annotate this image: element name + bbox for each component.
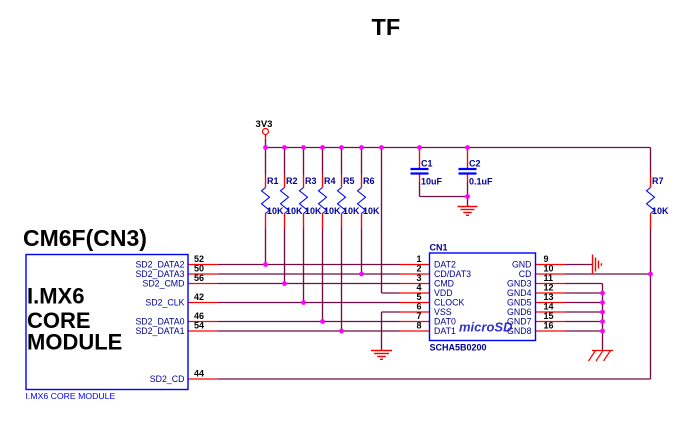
svg-text:1: 1 <box>416 254 421 264</box>
svg-text:15: 15 <box>544 311 554 321</box>
svg-text:2: 2 <box>416 264 421 274</box>
svg-text:10K: 10K <box>267 206 284 216</box>
svg-text:CMD: CMD <box>434 279 454 289</box>
ground under VSS <box>371 351 392 360</box>
svg-text:8: 8 <box>416 321 421 331</box>
svg-text:0.1uF: 0.1uF <box>469 177 493 187</box>
wire net SD2_CLK/CLOCK <box>218 302 400 304</box>
CN1 right pin numbers 9-16 <box>544 254 554 331</box>
wire ground column vertical <box>602 284 604 351</box>
svg-text:DAT2: DAT2 <box>434 260 456 270</box>
svg-text:10K: 10K <box>652 206 669 216</box>
wire pin9 GND to bar-ground <box>566 264 593 266</box>
wire SD2_CD bottom run <box>218 378 651 380</box>
svg-text:16: 16 <box>544 321 554 331</box>
svg-text:MODULE: MODULE <box>27 330 122 355</box>
svg-text:CD/DAT3: CD/DAT3 <box>434 269 471 279</box>
svg-text:R5: R5 <box>343 176 355 186</box>
svg-text:GND3: GND3 <box>507 279 532 289</box>
wire bus to R2 <box>284 148 286 175</box>
wire CD net down right side <box>650 274 652 379</box>
wire R5 to net <box>341 229 343 332</box>
wire pin12 to ground column <box>566 292 603 294</box>
svg-text:7: 7 <box>416 311 421 321</box>
wire C1-C2 bottom join <box>420 196 468 198</box>
wire R4 to net <box>322 229 324 322</box>
wire R3 to net <box>303 229 305 303</box>
svg-text:SD2_DATA1: SD2_DATA1 <box>135 326 184 336</box>
svg-text:46: 46 <box>194 311 204 321</box>
wire 3V3 bus horizontal <box>266 147 651 149</box>
wire VDD horizontal to CN1 pin4 <box>382 292 400 294</box>
svg-text:4: 4 <box>416 283 421 293</box>
resistor R5 10K <box>338 175 361 229</box>
svg-text:10K: 10K <box>363 206 380 216</box>
power port 3V3 <box>256 119 273 141</box>
svg-text:10K: 10K <box>305 206 322 216</box>
connector CN1 box <box>430 253 536 341</box>
svg-text:10uF: 10uF <box>421 177 443 187</box>
svg-text:CD: CD <box>519 269 532 279</box>
svg-text:R1: R1 <box>267 176 279 186</box>
svg-text:54: 54 <box>194 321 204 331</box>
svg-text:R7: R7 <box>652 176 664 186</box>
svg-text:I.MX6: I.MX6 <box>27 284 84 309</box>
CN1 right pin names <box>507 260 532 337</box>
wire R2 to net <box>284 229 286 284</box>
wire VDD vertical from bus <box>381 148 383 294</box>
svg-text:GND7: GND7 <box>507 317 532 327</box>
capacitor C2 0.1uF <box>459 149 494 187</box>
svg-text:GND5: GND5 <box>507 298 532 308</box>
svg-text:SCHA5B0200: SCHA5B0200 <box>430 343 487 353</box>
svg-text:R3: R3 <box>305 176 317 186</box>
svg-text:10: 10 <box>544 264 554 274</box>
svg-text:VDD: VDD <box>434 288 453 298</box>
svg-text:42: 42 <box>194 292 204 302</box>
svg-text:CLOCK: CLOCK <box>434 298 464 308</box>
ground under C2 <box>458 207 478 216</box>
wire R6 to net <box>361 229 363 275</box>
wire VSS horizontal from CN1 pin6 <box>382 311 400 313</box>
wire pin14 to ground column <box>566 311 603 313</box>
svg-text:5: 5 <box>416 292 421 302</box>
wire pin16 to ground column <box>566 330 603 332</box>
module big name text <box>27 284 122 355</box>
svg-text:10K: 10K <box>324 206 341 216</box>
wire bus to R6 <box>361 148 363 175</box>
svg-text:10K: 10K <box>286 206 303 216</box>
CN1 left pin numbers 1-8 <box>416 254 421 331</box>
resistor R6 10K <box>358 175 381 229</box>
svg-text:SD2_DATA3: SD2_DATA3 <box>135 269 184 279</box>
module pin names <box>135 260 184 385</box>
wire net SD2_CMD/CMD <box>218 283 400 285</box>
module CM6F pin stubs <box>188 265 218 380</box>
svg-text:9: 9 <box>544 254 549 264</box>
resistor R3 10K <box>300 175 323 229</box>
module pin numbers <box>194 254 204 379</box>
wire bus to R4 <box>322 148 324 175</box>
wire bus corner down to R7 <box>650 148 652 175</box>
svg-text:SD2_CMD: SD2_CMD <box>142 279 184 289</box>
wire R7 to CD net <box>650 229 652 275</box>
wire net SD2_DATA0/DAT0 <box>218 321 400 323</box>
svg-text:R6: R6 <box>363 176 375 186</box>
wire C1 bottom drop <box>419 182 421 197</box>
resistor R2 10K <box>281 175 304 229</box>
capacitor C1 10uF <box>411 149 443 187</box>
svg-text:10K: 10K <box>343 206 360 216</box>
svg-text:GND4: GND4 <box>507 288 532 298</box>
rotated ground at CN1 pin 9 <box>593 255 602 275</box>
svg-text:microSD: microSD <box>459 320 513 335</box>
wire net SD2_DATA2/DAT2 <box>218 264 400 266</box>
svg-text:CM6F(CN3): CM6F(CN3) <box>23 225 147 251</box>
svg-text:R2: R2 <box>286 176 298 186</box>
svg-text:GND6: GND6 <box>507 307 532 317</box>
svg-text:50: 50 <box>194 264 204 274</box>
resistor R1 10K <box>262 175 285 229</box>
svg-text:GND: GND <box>512 260 532 270</box>
svg-text:C2: C2 <box>469 159 481 169</box>
svg-text:13: 13 <box>544 292 554 302</box>
svg-text:GND8: GND8 <box>507 326 532 336</box>
module U: I.MX6 CORE MODULE box <box>26 255 188 390</box>
svg-text:52: 52 <box>194 254 204 264</box>
wire bus to R1 <box>265 148 267 175</box>
svg-text:SD2_CLK: SD2_CLK <box>145 298 184 308</box>
CN1 left pin names <box>434 260 471 337</box>
wire 3V3 to bus <box>265 140 267 148</box>
svg-text:44: 44 <box>194 369 204 379</box>
wire net SD2_DATA3/CD_DAT3 <box>218 273 400 275</box>
svg-text:3: 3 <box>416 273 421 283</box>
wire C2 bottom to ground <box>467 182 469 207</box>
svg-text:C1: C1 <box>421 159 433 169</box>
wire VSS vertical to ground <box>381 312 383 351</box>
svg-text:11: 11 <box>544 273 554 283</box>
svg-text:I.MX6 CORE MODULE: I.MX6 CORE MODULE <box>26 391 116 401</box>
chassis/earth ground at CN1 GND column <box>589 351 614 362</box>
resistor R4 10K <box>319 175 342 229</box>
svg-text:14: 14 <box>544 302 554 312</box>
svg-text:6: 6 <box>416 302 421 312</box>
wire pin13 to ground column <box>566 302 603 304</box>
svg-text:CN1: CN1 <box>430 243 448 253</box>
svg-text:DAT1: DAT1 <box>434 326 456 336</box>
svg-text:R4: R4 <box>324 176 336 186</box>
wire pin10 CD to R7 net <box>566 273 651 275</box>
wire bus to R3 <box>303 148 305 175</box>
svg-text:DAT0: DAT0 <box>434 317 456 327</box>
svg-text:TF: TF <box>372 14 401 40</box>
svg-text:VSS: VSS <box>434 307 452 317</box>
svg-text:SD2_CD: SD2_CD <box>150 374 185 384</box>
resistor R7 10K <box>647 175 670 229</box>
svg-text:12: 12 <box>544 283 554 293</box>
wire pin11 to ground column <box>566 283 603 285</box>
svg-text:56: 56 <box>194 273 204 283</box>
svg-text:SD2_DATA2: SD2_DATA2 <box>135 260 184 270</box>
wire R1 to net <box>265 229 267 265</box>
wire bus to R5 <box>341 148 343 175</box>
connector CN1 pin stubs <box>400 265 566 332</box>
wire pin15 to ground column <box>566 321 603 323</box>
wire net SD2_DATA1/DAT1 <box>218 330 400 332</box>
svg-text:SD2_DATA0: SD2_DATA0 <box>135 317 184 327</box>
